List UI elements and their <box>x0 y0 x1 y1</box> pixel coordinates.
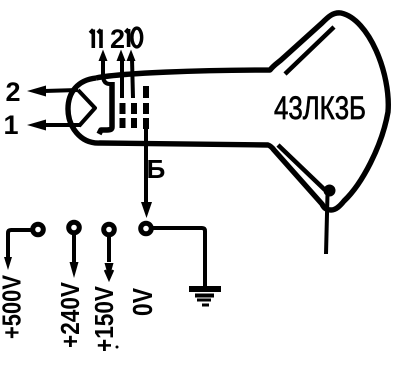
svg-text:1: 1 <box>3 110 18 140</box>
svg-text:+240V: +240V <box>55 281 85 348</box>
svg-text:Б: Б <box>147 154 166 184</box>
svg-text:+500V: +500V <box>0 274 27 339</box>
svg-text:2: 2 <box>5 77 20 107</box>
svg-text:+150V: +150V <box>89 285 119 352</box>
svg-text:0V: 0V <box>127 288 158 316</box>
svg-text:43ЛК3Б: 43ЛК3Б <box>274 90 366 126</box>
svg-text:2: 2 <box>110 24 125 54</box>
